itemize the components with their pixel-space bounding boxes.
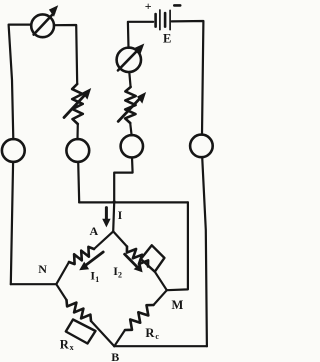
galvanometer G1 xyxy=(2,139,25,162)
arrowhead of rheostat R1 arrow xyxy=(82,88,91,100)
svg-text:+: + xyxy=(145,0,152,13)
wire: meter M2 bottom to rheostat R2 xyxy=(129,72,130,87)
svg-text:R: R xyxy=(60,337,70,351)
current arrow I xyxy=(105,208,108,221)
wire: battery left terminal to corner and down to meter M2 xyxy=(128,22,153,48)
rheostat R2 zigzag xyxy=(125,87,136,123)
arrowhead of ammeter M1 arrow xyxy=(49,5,58,17)
galvanometer G4 xyxy=(190,135,213,158)
wire: bus junction down to node A xyxy=(113,202,114,231)
wire: circle G4 bottom down right side xyxy=(202,157,207,346)
arrowhead of current arrow I2 xyxy=(134,263,143,272)
rheostat R1 arrow xyxy=(64,92,87,117)
svg-text:I: I xyxy=(118,208,123,222)
galvanometer G3 xyxy=(121,135,143,157)
svg-text:M: M xyxy=(171,298,183,312)
wire: circle G1 bottom down left side to node N level xyxy=(11,162,13,284)
ammeter M1 (circle with arrow) xyxy=(31,14,54,37)
wire: circle G2 bottom down to bus xyxy=(78,162,79,202)
svg-text:E: E xyxy=(163,31,171,45)
svg-text:2: 2 xyxy=(118,271,122,280)
wire: bottom from node B to right edge xyxy=(114,345,207,347)
meter M2 (circle with arrow, below battery) xyxy=(117,48,141,72)
current arrow I2 xyxy=(125,254,139,269)
resistance box of Rx xyxy=(66,320,96,344)
resistor in arm A-N xyxy=(69,247,94,264)
arrowhead of rheostat R2 arrow xyxy=(137,92,146,104)
svg-text:A: A xyxy=(89,224,98,238)
wire: bridge arm A to N xyxy=(94,231,113,249)
current arrow I1 xyxy=(83,252,103,267)
galvanometer G2 xyxy=(66,139,89,162)
arrowhead of current arrow I1 xyxy=(79,262,89,271)
wire: circle G3 bottom step to bus junction xyxy=(114,157,132,202)
junction of bus and branch to node A xyxy=(113,200,116,203)
wire: rheostat R1 bottom to circle G2 top xyxy=(76,124,79,139)
wire top-left: meter M1 left terminal to left edge and down to circle G1 xyxy=(9,25,32,140)
wire: meter M1 right terminal to corner then down to rheostat R1 xyxy=(54,25,77,84)
resistor Rx in arm N-B xyxy=(67,300,92,321)
wire: bus down to node M xyxy=(167,202,188,290)
wire: battery right terminal to top right corner and down to circle G4 xyxy=(172,21,204,135)
resistor in arm A-M xyxy=(127,247,148,267)
wire: left corner to node N xyxy=(11,283,57,285)
rheostat R1 zigzag xyxy=(72,84,83,124)
svg-text:N: N xyxy=(38,262,47,276)
wire: bridge arm M to B xyxy=(154,290,167,305)
resistor Rc in arm M-B xyxy=(125,305,154,330)
wire: bridge arm N to B xyxy=(56,284,66,300)
battery minus sign xyxy=(174,4,180,7)
rheostat R2 arrow xyxy=(118,96,142,121)
svg-text:x: x xyxy=(70,343,74,352)
resistance box in arm A-M xyxy=(141,245,165,271)
wire: bridge arm A to M xyxy=(113,231,127,246)
arrowhead of current arrow I xyxy=(102,219,110,228)
wire bus: horizontal connecting line xyxy=(79,201,188,203)
svg-text:c: c xyxy=(155,332,159,341)
arrowhead of meter M2 arrow xyxy=(135,44,144,56)
wire: rheostat R2 bottom to circle G3 xyxy=(130,123,131,135)
svg-text:B: B xyxy=(111,350,119,362)
svg-text:1: 1 xyxy=(95,275,99,284)
svg-text:R: R xyxy=(145,326,155,340)
battery E plates xyxy=(154,14,157,27)
